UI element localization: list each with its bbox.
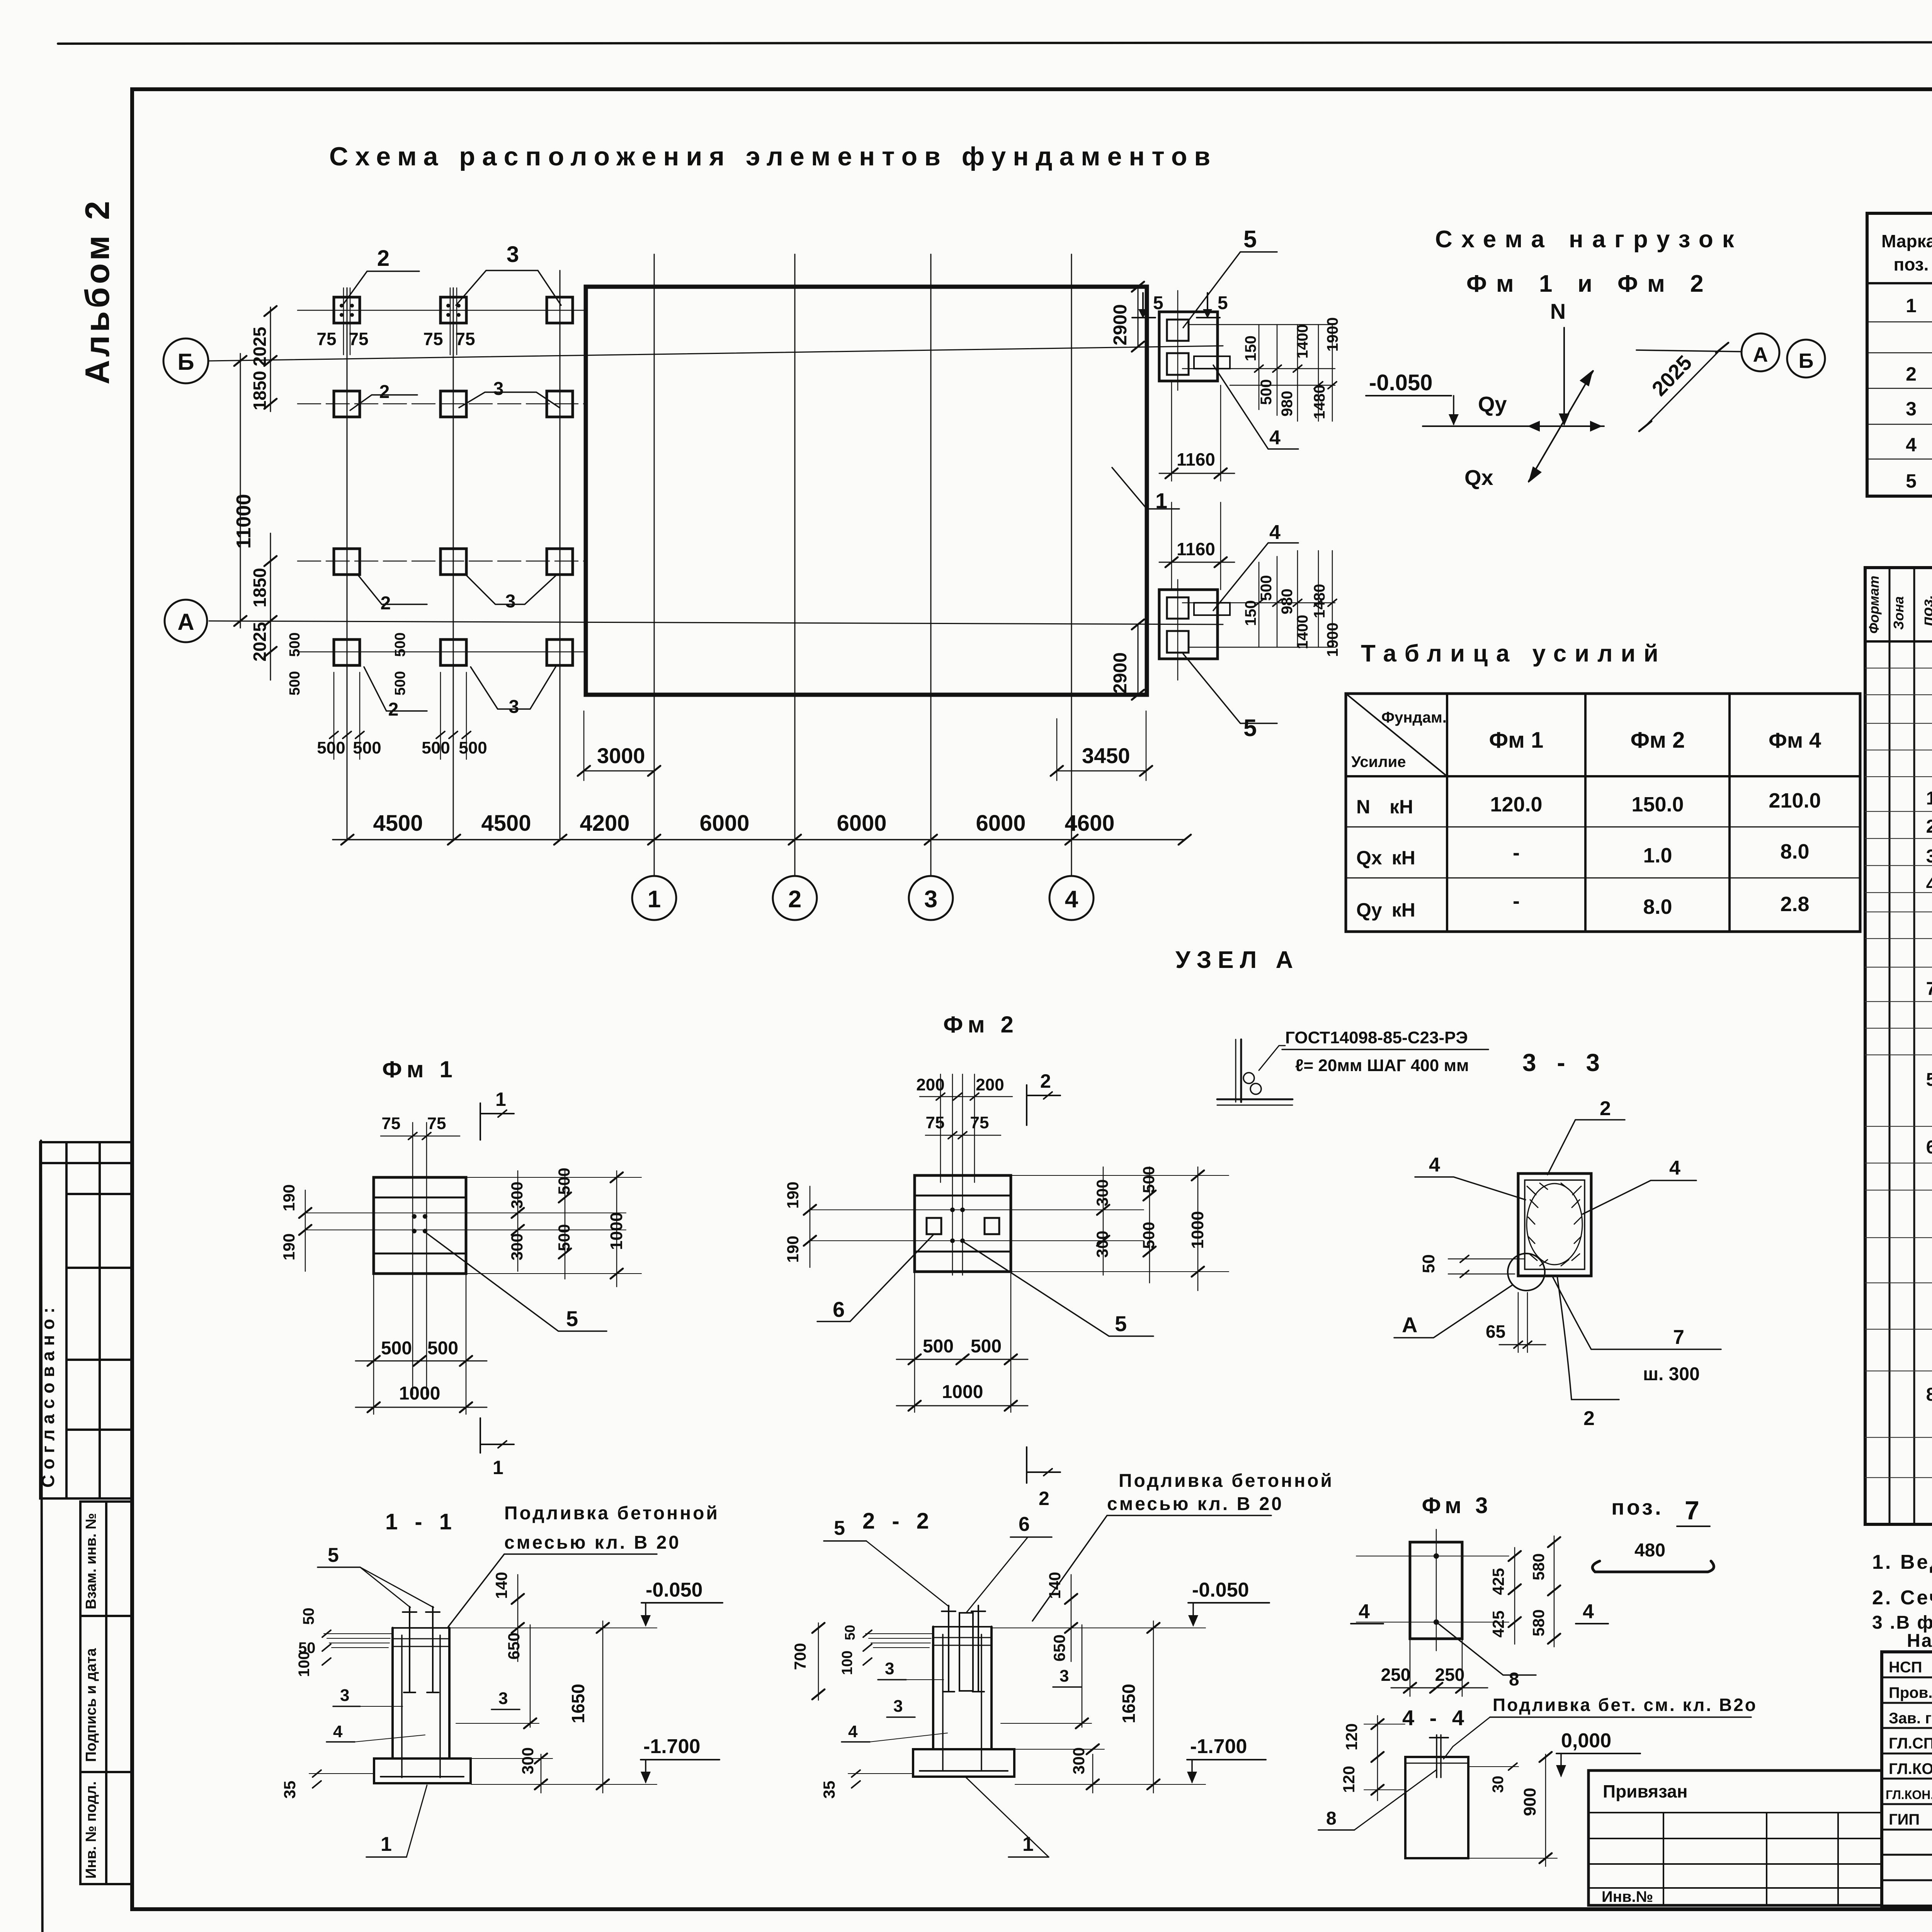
svg-text:1: 1	[648, 886, 661, 913]
svg-text:1400: 1400	[1294, 324, 1311, 359]
svg-text:6000: 6000	[976, 811, 1026, 836]
svg-text:8: 8	[1326, 1808, 1337, 1829]
svg-text:ш. 300: ш. 300	[1643, 1364, 1700, 1384]
fm1 bottom dims 500 500	[373, 1274, 374, 1414]
svg-text:Пров.: Пров.	[1889, 1684, 1932, 1701]
svg-text:Зав. гр: Зав. гр	[1889, 1710, 1932, 1727]
fm2 dims 200 200	[920, 1096, 1012, 1097]
svg-text:3450: 3450	[1082, 743, 1130, 768]
svg-text:500: 500	[971, 1336, 1002, 1357]
svg-text:8.0: 8.0	[1643, 895, 1672, 918]
fm4 bottom slot bar	[1194, 603, 1230, 615]
svg-text:3: 3	[509, 697, 519, 717]
svg-text:75: 75	[427, 1114, 446, 1133]
building outline rect	[586, 287, 1147, 695]
fm2 section flag 2 top	[1026, 1085, 1027, 1125]
svg-text:210.0: 210.0	[1769, 789, 1821, 812]
svg-text:Инв.№: Инв.№	[1602, 1888, 1653, 1905]
fm2 anchor verticals	[940, 1074, 941, 1182]
fm2 right dims	[1103, 1167, 1104, 1275]
svg-text:250: 250	[1435, 1665, 1465, 1685]
svg-text:0,000: 0,000	[1561, 1730, 1611, 1752]
svg-text:500: 500	[427, 1338, 458, 1359]
svg-text:2900: 2900	[1110, 304, 1131, 345]
svg-text:300: 300	[1070, 1747, 1088, 1774]
svg-text:4200: 4200	[580, 811, 629, 836]
svg-text:-0.050: -0.050	[646, 1579, 702, 1601]
axis bubble 4	[1049, 876, 1094, 920]
svg-text:300: 300	[1093, 1231, 1111, 1258]
svg-text:5: 5	[1906, 470, 1917, 492]
svg-text:7: 7	[1926, 979, 1932, 999]
svg-text:Подливка бетонной: Подливка бетонной	[1119, 1471, 1334, 1491]
section 1-1 dim 300	[541, 1754, 542, 1793]
fm2 bolt dots	[950, 1207, 965, 1243]
svg-text:50: 50	[300, 1608, 317, 1625]
svg-text:1900: 1900	[1324, 317, 1341, 352]
svg-text:75: 75	[970, 1113, 989, 1132]
foundation squares row3	[334, 549, 573, 575]
svg-text:2025: 2025	[1648, 351, 1697, 400]
svg-text:500: 500	[1258, 575, 1275, 601]
section 3-3 rebar oval	[1527, 1184, 1582, 1265]
svg-text:поз.: поз.	[1611, 1495, 1663, 1519]
svg-text:480: 480	[1634, 1540, 1665, 1561]
svg-text:Qx кН: Qx кН	[1356, 847, 1415, 869]
svg-text:Усилие: Усилие	[1351, 753, 1406, 770]
svg-text:Зона: Зона	[1891, 596, 1906, 630]
fm2 section flag 2 bottom	[1026, 1447, 1027, 1483]
svg-text:140: 140	[492, 1572, 510, 1599]
svg-text:5: 5	[566, 1306, 578, 1331]
svg-text:Qy: Qy	[1478, 392, 1507, 416]
svg-text:300: 300	[1093, 1179, 1111, 1206]
svg-text:1000: 1000	[399, 1383, 440, 1404]
svg-text:1: 1	[493, 1457, 503, 1478]
spec2 row rules	[1865, 668, 1932, 1478]
svg-text:-0.050: -0.050	[1192, 1579, 1249, 1601]
svg-text:150: 150	[1242, 600, 1259, 626]
svg-text:2.8: 2.8	[1780, 893, 1809, 916]
fm4 top dim rails	[1189, 324, 1335, 325]
svg-text:ГЛ.СП: ГЛ.СП	[1889, 1735, 1932, 1752]
svg-text:500: 500	[422, 738, 450, 757]
svg-text:смесью кл. В 20: смесью кл. В 20	[1107, 1494, 1284, 1514]
svg-text:700: 700	[791, 1643, 809, 1670]
axis link line	[1636, 350, 1742, 352]
svg-text:300: 300	[519, 1747, 537, 1774]
svg-text:Схема расположения элементов: Схема расположения элементов фундаментов	[329, 142, 1217, 171]
svg-text:3 - 3: 3 - 3	[1522, 1049, 1607, 1077]
svg-text:120: 120	[1342, 1723, 1361, 1750]
axis circle Б small	[1787, 340, 1825, 378]
svg-text:3: 3	[1906, 398, 1917, 420]
dim 2025 diagonal	[1645, 348, 1722, 426]
svg-text:300: 300	[508, 1233, 526, 1260]
svg-text:Б: Б	[1799, 349, 1814, 372]
svg-text:1480: 1480	[1311, 584, 1328, 618]
svg-text:3: 3	[507, 242, 519, 267]
svg-text:2: 2	[381, 593, 391, 614]
fm2 bottom dims	[914, 1272, 915, 1412]
svg-text:1650: 1650	[1119, 1684, 1139, 1723]
svg-text:1480: 1480	[1311, 385, 1328, 419]
svg-text:4: 4	[1065, 886, 1078, 913]
svg-text:580: 580	[1529, 1609, 1548, 1636]
force table diagonal	[1346, 694, 1447, 776]
svg-text:500: 500	[459, 738, 487, 757]
svg-text:-1.700: -1.700	[1190, 1735, 1247, 1758]
svg-text:4: 4	[1429, 1154, 1440, 1176]
dim 2900 bottom	[1138, 624, 1139, 695]
svg-text:Таблица усилий: Таблица усилий	[1361, 640, 1667, 667]
svg-text:1: 1	[381, 1833, 392, 1855]
svg-text:8: 8	[1926, 1384, 1932, 1405]
svg-text:75: 75	[423, 329, 443, 349]
svg-text:980: 980	[1279, 391, 1296, 417]
svg-text:4: 4	[1906, 434, 1917, 456]
svg-text:Фм 1: Фм 1	[382, 1056, 457, 1082]
svg-text:поз.: поз.	[1894, 254, 1929, 274]
svg-text:500: 500	[317, 738, 345, 757]
section 4-4 pier	[1405, 1757, 1468, 1858]
bottom 500 500 dims under row4	[334, 672, 466, 759]
svg-text:1: 1	[1926, 788, 1932, 809]
fm3 leader 8	[1437, 1623, 1536, 1675]
section 1-1 dim 140 650	[517, 1575, 519, 1662]
поз 7 bar sketch	[1592, 1561, 1714, 1572]
section 2-2 footing	[913, 1749, 1014, 1777]
title block signature table	[1882, 1652, 1932, 1906]
svg-text:1: 1	[495, 1088, 506, 1110]
fm3 dims 425	[1514, 1548, 1515, 1644]
svg-text:2 - 2: 2 - 2	[862, 1509, 934, 1534]
svg-text:7: 7	[1673, 1326, 1684, 1349]
left stamp upper box (Согласовано)	[40, 1142, 133, 1498]
svg-text:300: 300	[508, 1182, 526, 1209]
section 2-2 МН1 plate	[959, 1613, 973, 1691]
svg-text:Фм 3: Фм 3	[1422, 1493, 1492, 1518]
svg-text:2025: 2025	[250, 622, 270, 662]
svg-text:5: 5	[1153, 293, 1163, 313]
section 1-1 grade hatch	[324, 1634, 392, 1648]
svg-text:3: 3	[493, 379, 504, 399]
svg-text:ℓ= 20мм ШАГ 400 мм: ℓ= 20мм ШАГ 400 мм	[1295, 1056, 1469, 1075]
svg-text:6000: 6000	[699, 811, 749, 836]
3-3 leader 7	[1552, 1276, 1721, 1349]
fm3 dims 580	[1554, 1536, 1555, 1647]
section 1-1 column	[391, 1628, 394, 1759]
load N arrow	[1563, 328, 1565, 424]
svg-text:Фм 1 и Фм 2: Фм 1 и Фм 2	[1466, 270, 1713, 297]
axis bubble 3	[909, 876, 953, 920]
dim 1160 top	[1171, 381, 1172, 481]
svg-text:смесью кл. В 20: смесью кл. В 20	[504, 1532, 681, 1553]
load Qy axis line	[1423, 425, 1604, 427]
foundation squares row1	[334, 297, 573, 323]
3-3 leader 2 top	[1548, 1120, 1625, 1175]
svg-text:500: 500	[923, 1336, 954, 1357]
3-3 node circle А	[1508, 1253, 1545, 1291]
section 1-1 dim 1650	[602, 1621, 604, 1793]
svg-text:Фм 4: Фм 4	[1769, 728, 1821, 752]
svg-text:190: 190	[280, 1184, 298, 1211]
svg-text:190: 190	[784, 1236, 802, 1263]
svg-text:150.0: 150.0	[1631, 793, 1684, 816]
svg-text:2900: 2900	[1110, 652, 1131, 694]
svg-text:4: 4	[1269, 521, 1281, 544]
fm1 section flag 1 bottom	[480, 1418, 481, 1453]
fm4 bottom block outline	[1159, 590, 1218, 659]
svg-text:-0.050: -0.050	[1369, 370, 1432, 395]
svg-text:ГЛ.КОН.Т.О: ГЛ.КОН.Т.О	[1886, 1788, 1932, 1802]
svg-text:500: 500	[287, 633, 303, 657]
svg-text:1000: 1000	[1188, 1211, 1207, 1249]
fm1 anchor verticals	[412, 1122, 413, 1395]
fm4 top centre line	[1177, 291, 1179, 390]
svg-text:425: 425	[1489, 1568, 1507, 1595]
svg-text:1160: 1160	[1177, 539, 1215, 559]
svg-text:1900: 1900	[1324, 622, 1341, 657]
svg-text:2: 2	[1600, 1097, 1611, 1120]
svg-text:75: 75	[382, 1114, 401, 1133]
svg-text:425: 425	[1489, 1611, 1507, 1638]
svg-text:580: 580	[1529, 1553, 1548, 1580]
svg-text:3: 3	[498, 1689, 508, 1708]
svg-text:4: 4	[1269, 427, 1281, 449]
section 3-3 column	[1518, 1173, 1591, 1276]
fm1 section flag 1 top	[480, 1103, 481, 1140]
signature table names	[1886, 1659, 1932, 1828]
svg-text:190: 190	[784, 1182, 802, 1209]
svg-text:Qy кН: Qy кН	[1356, 899, 1415, 921]
section 2-2 dim 300	[1092, 1754, 1094, 1793]
svg-text:4: 4	[1359, 1600, 1370, 1623]
section 1-1 inner column	[401, 1635, 403, 1777]
svg-text:5: 5	[1115, 1311, 1127, 1336]
fm3 plan rect	[1410, 1542, 1462, 1639]
svg-text:Привязан: Привязан	[1603, 1781, 1688, 1801]
svg-text:1850: 1850	[250, 371, 270, 410]
fm2 bolt row lines	[810, 1209, 1144, 1210]
fm4 top slot bar	[1194, 356, 1230, 369]
svg-text:120: 120	[1340, 1766, 1358, 1793]
fm1 right dims 300	[517, 1171, 519, 1271]
svg-text:100: 100	[839, 1651, 855, 1675]
svg-text:650: 650	[1050, 1634, 1068, 1662]
svg-text:120.0: 120.0	[1490, 793, 1542, 816]
svg-text:Подливка бет. см. кл. В2о: Подливка бет. см. кл. В2о	[1493, 1695, 1757, 1715]
svg-text:ГИП: ГИП	[1889, 1811, 1920, 1828]
left stamp lower box	[80, 1502, 133, 1884]
section 2-2 column	[932, 1627, 934, 1749]
fm4 bottom dim rails	[1189, 647, 1335, 648]
svg-text:Фм 2: Фм 2	[1631, 728, 1685, 753]
svg-text:3: 3	[1060, 1667, 1069, 1685]
svg-text:Альбом 2: Альбом 2	[78, 198, 116, 384]
dim 3450	[1056, 719, 1058, 781]
fm1 bottom dim 1000	[355, 1407, 487, 1408]
svg-text:Согласовано:: Согласовано:	[38, 1302, 58, 1488]
svg-text:500: 500	[381, 1338, 412, 1359]
3-3 dim 50	[1448, 1259, 1525, 1260]
svg-text:500: 500	[392, 633, 408, 657]
spec1 table frame	[1867, 213, 1932, 496]
svg-text:50: 50	[842, 1625, 858, 1640]
spec2 table frame	[1865, 568, 1932, 1524]
svg-text:200: 200	[916, 1075, 944, 1094]
svg-text:8: 8	[1509, 1669, 1519, 1690]
3-3 leader 2 bottom	[1557, 1276, 1619, 1400]
svg-text:3000: 3000	[597, 743, 645, 768]
svg-text:А: А	[1753, 343, 1768, 366]
dim 2900 top	[1138, 287, 1139, 347]
svg-text:1850: 1850	[250, 568, 270, 607]
svg-text:500: 500	[353, 738, 381, 757]
axis circle А	[165, 600, 207, 642]
svg-text:-: -	[1513, 889, 1520, 913]
fm4 top block outline	[1159, 312, 1218, 381]
svg-text:ГЛ.КОН: ГЛ.КОН	[1889, 1760, 1932, 1777]
left dim chain lower	[270, 533, 271, 680]
svg-text:2: 2	[388, 699, 399, 720]
svg-text:6: 6	[833, 1297, 845, 1321]
svg-text:11000: 11000	[233, 494, 255, 549]
svg-text:650: 650	[505, 1633, 523, 1660]
svg-text:65: 65	[1486, 1321, 1505, 1342]
svg-text:НСП: НСП	[1889, 1659, 1922, 1676]
paper outer top edge	[58, 42, 1932, 44]
section flags 5-5 top	[1142, 293, 1144, 318]
svg-text:50: 50	[1419, 1254, 1438, 1273]
bottom dimension chain	[333, 839, 1185, 840]
svg-text:3: 3	[893, 1697, 903, 1716]
svg-text:500: 500	[1139, 1222, 1158, 1249]
svg-text:-1.700: -1.700	[643, 1735, 700, 1758]
axis line Б	[209, 346, 1223, 361]
svg-text:75: 75	[455, 329, 475, 349]
rebar dots row1	[340, 304, 461, 317]
svg-text:140: 140	[1046, 1572, 1064, 1599]
svg-text:4500: 4500	[373, 811, 423, 836]
svg-text:2: 2	[379, 382, 390, 402]
svg-text:1.0: 1.0	[1643, 844, 1672, 867]
svg-text:75: 75	[926, 1113, 945, 1132]
svg-text:3: 3	[885, 1659, 894, 1678]
svg-text:500: 500	[392, 671, 408, 696]
svg-text:2: 2	[1039, 1488, 1049, 1509]
svg-text:4: 4	[1583, 1600, 1594, 1623]
column axis lines left	[347, 288, 348, 840]
svg-text:4600: 4600	[1065, 811, 1114, 836]
svg-text:УЗЕЛ А: УЗЕЛ А	[1175, 947, 1299, 973]
paper outer left edge partial	[41, 1141, 43, 1932]
section 4-4 dim 900	[1545, 1754, 1546, 1866]
svg-text:500: 500	[287, 671, 303, 696]
svg-text:2025: 2025	[250, 327, 270, 366]
svg-text:Фм 2: Фм 2	[943, 1012, 1018, 1037]
svg-text:1000: 1000	[942, 1382, 983, 1402]
section 2-2 dim 140 650	[1071, 1575, 1072, 1662]
section 2-2 anchor bolts	[942, 1605, 985, 1692]
section 4-4 dims 120 120	[1377, 1716, 1378, 1801]
dim 11000	[240, 354, 241, 628]
fm1 plan square	[374, 1177, 466, 1274]
section 1-1 anchor bolts	[403, 1607, 440, 1692]
svg-text:6: 6	[1926, 1137, 1932, 1158]
svg-text:150: 150	[1242, 335, 1259, 361]
svg-text:500: 500	[1258, 379, 1275, 405]
svg-text:А: А	[1402, 1313, 1417, 1337]
svg-text:Фм 1: Фм 1	[1489, 728, 1544, 753]
fm2 plan square	[915, 1175, 1011, 1272]
section 4-4 bolt	[1436, 1735, 1437, 1777]
svg-text:900: 900	[1520, 1788, 1539, 1816]
svg-text:1000: 1000	[607, 1212, 626, 1250]
svg-text:4: 4	[1926, 874, 1932, 895]
svg-text:N: N	[1550, 299, 1566, 323]
load Qx diagonal arrow	[1529, 371, 1593, 481]
svg-text:3 .В фундаменте Ф2 поз. 6 н: 3 .В фундаменте Ф2 поз. 6 не выполнять, …	[1872, 1612, 1932, 1633]
fm1 right dims 500	[565, 1171, 566, 1279]
svg-text:3: 3	[1926, 846, 1932, 867]
svg-text:35: 35	[820, 1781, 838, 1799]
svg-text:поз.: поз.	[1919, 595, 1932, 626]
fm1 left dims 190	[305, 1190, 306, 1271]
section 2-2 grade hatch	[866, 1634, 932, 1648]
section 1-1 footing	[374, 1759, 471, 1783]
svg-text:200: 200	[976, 1075, 1004, 1094]
axis bubble 2	[773, 876, 817, 920]
svg-text:75: 75	[316, 329, 336, 349]
svg-text:4: 4	[1669, 1157, 1680, 1179]
svg-text:Марка,: Марка,	[1881, 231, 1932, 251]
dim 3000	[583, 711, 585, 781]
svg-text:980: 980	[1279, 588, 1296, 614]
svg-text:2: 2	[1040, 1070, 1051, 1092]
axis bubble 1	[632, 876, 676, 920]
fm1 bolt rows lines	[305, 1213, 626, 1213]
svg-text:4: 4	[848, 1722, 858, 1741]
force table grid	[1346, 694, 1860, 932]
row connector lines	[298, 310, 586, 311]
svg-text:2: 2	[788, 886, 801, 913]
svg-text:ГОСТ14098-85-С23-РЭ: ГОСТ14098-85-С23-РЭ	[1285, 1028, 1468, 1047]
svg-text:Подпись и дата: Подпись и дата	[83, 1648, 99, 1762]
svg-text:8.0: 8.0	[1780, 840, 1809, 863]
foundation squares row2	[334, 391, 573, 417]
svg-text:2: 2	[1926, 816, 1932, 837]
fm1 bolt dots	[412, 1214, 427, 1233]
fm2 left dims 190	[810, 1186, 811, 1267]
svg-text:Подливка бетонной: Подливка бетонной	[504, 1503, 719, 1524]
svg-text:N кН: N кН	[1356, 796, 1413, 818]
svg-text:5: 5	[1243, 226, 1257, 253]
svg-text:2: 2	[377, 246, 389, 271]
weld note symbol	[1240, 1039, 1242, 1102]
svg-text:5: 5	[1243, 715, 1257, 742]
3-3 dim 65	[1518, 1293, 1519, 1352]
svg-text:3: 3	[340, 1686, 349, 1705]
fm4 bottom centre line	[1177, 580, 1179, 680]
svg-text:30: 30	[1490, 1776, 1507, 1793]
svg-text:1. Ведомость расхода стали: 1. Ведомость расхода стали см. лист 19,	[1872, 1551, 1932, 1573]
svg-text:4: 4	[333, 1722, 343, 1741]
fm1 leader 5	[426, 1233, 607, 1331]
svg-text:3: 3	[505, 591, 516, 612]
svg-text:2: 2	[1906, 363, 1917, 385]
svg-text:5: 5	[1218, 293, 1228, 313]
